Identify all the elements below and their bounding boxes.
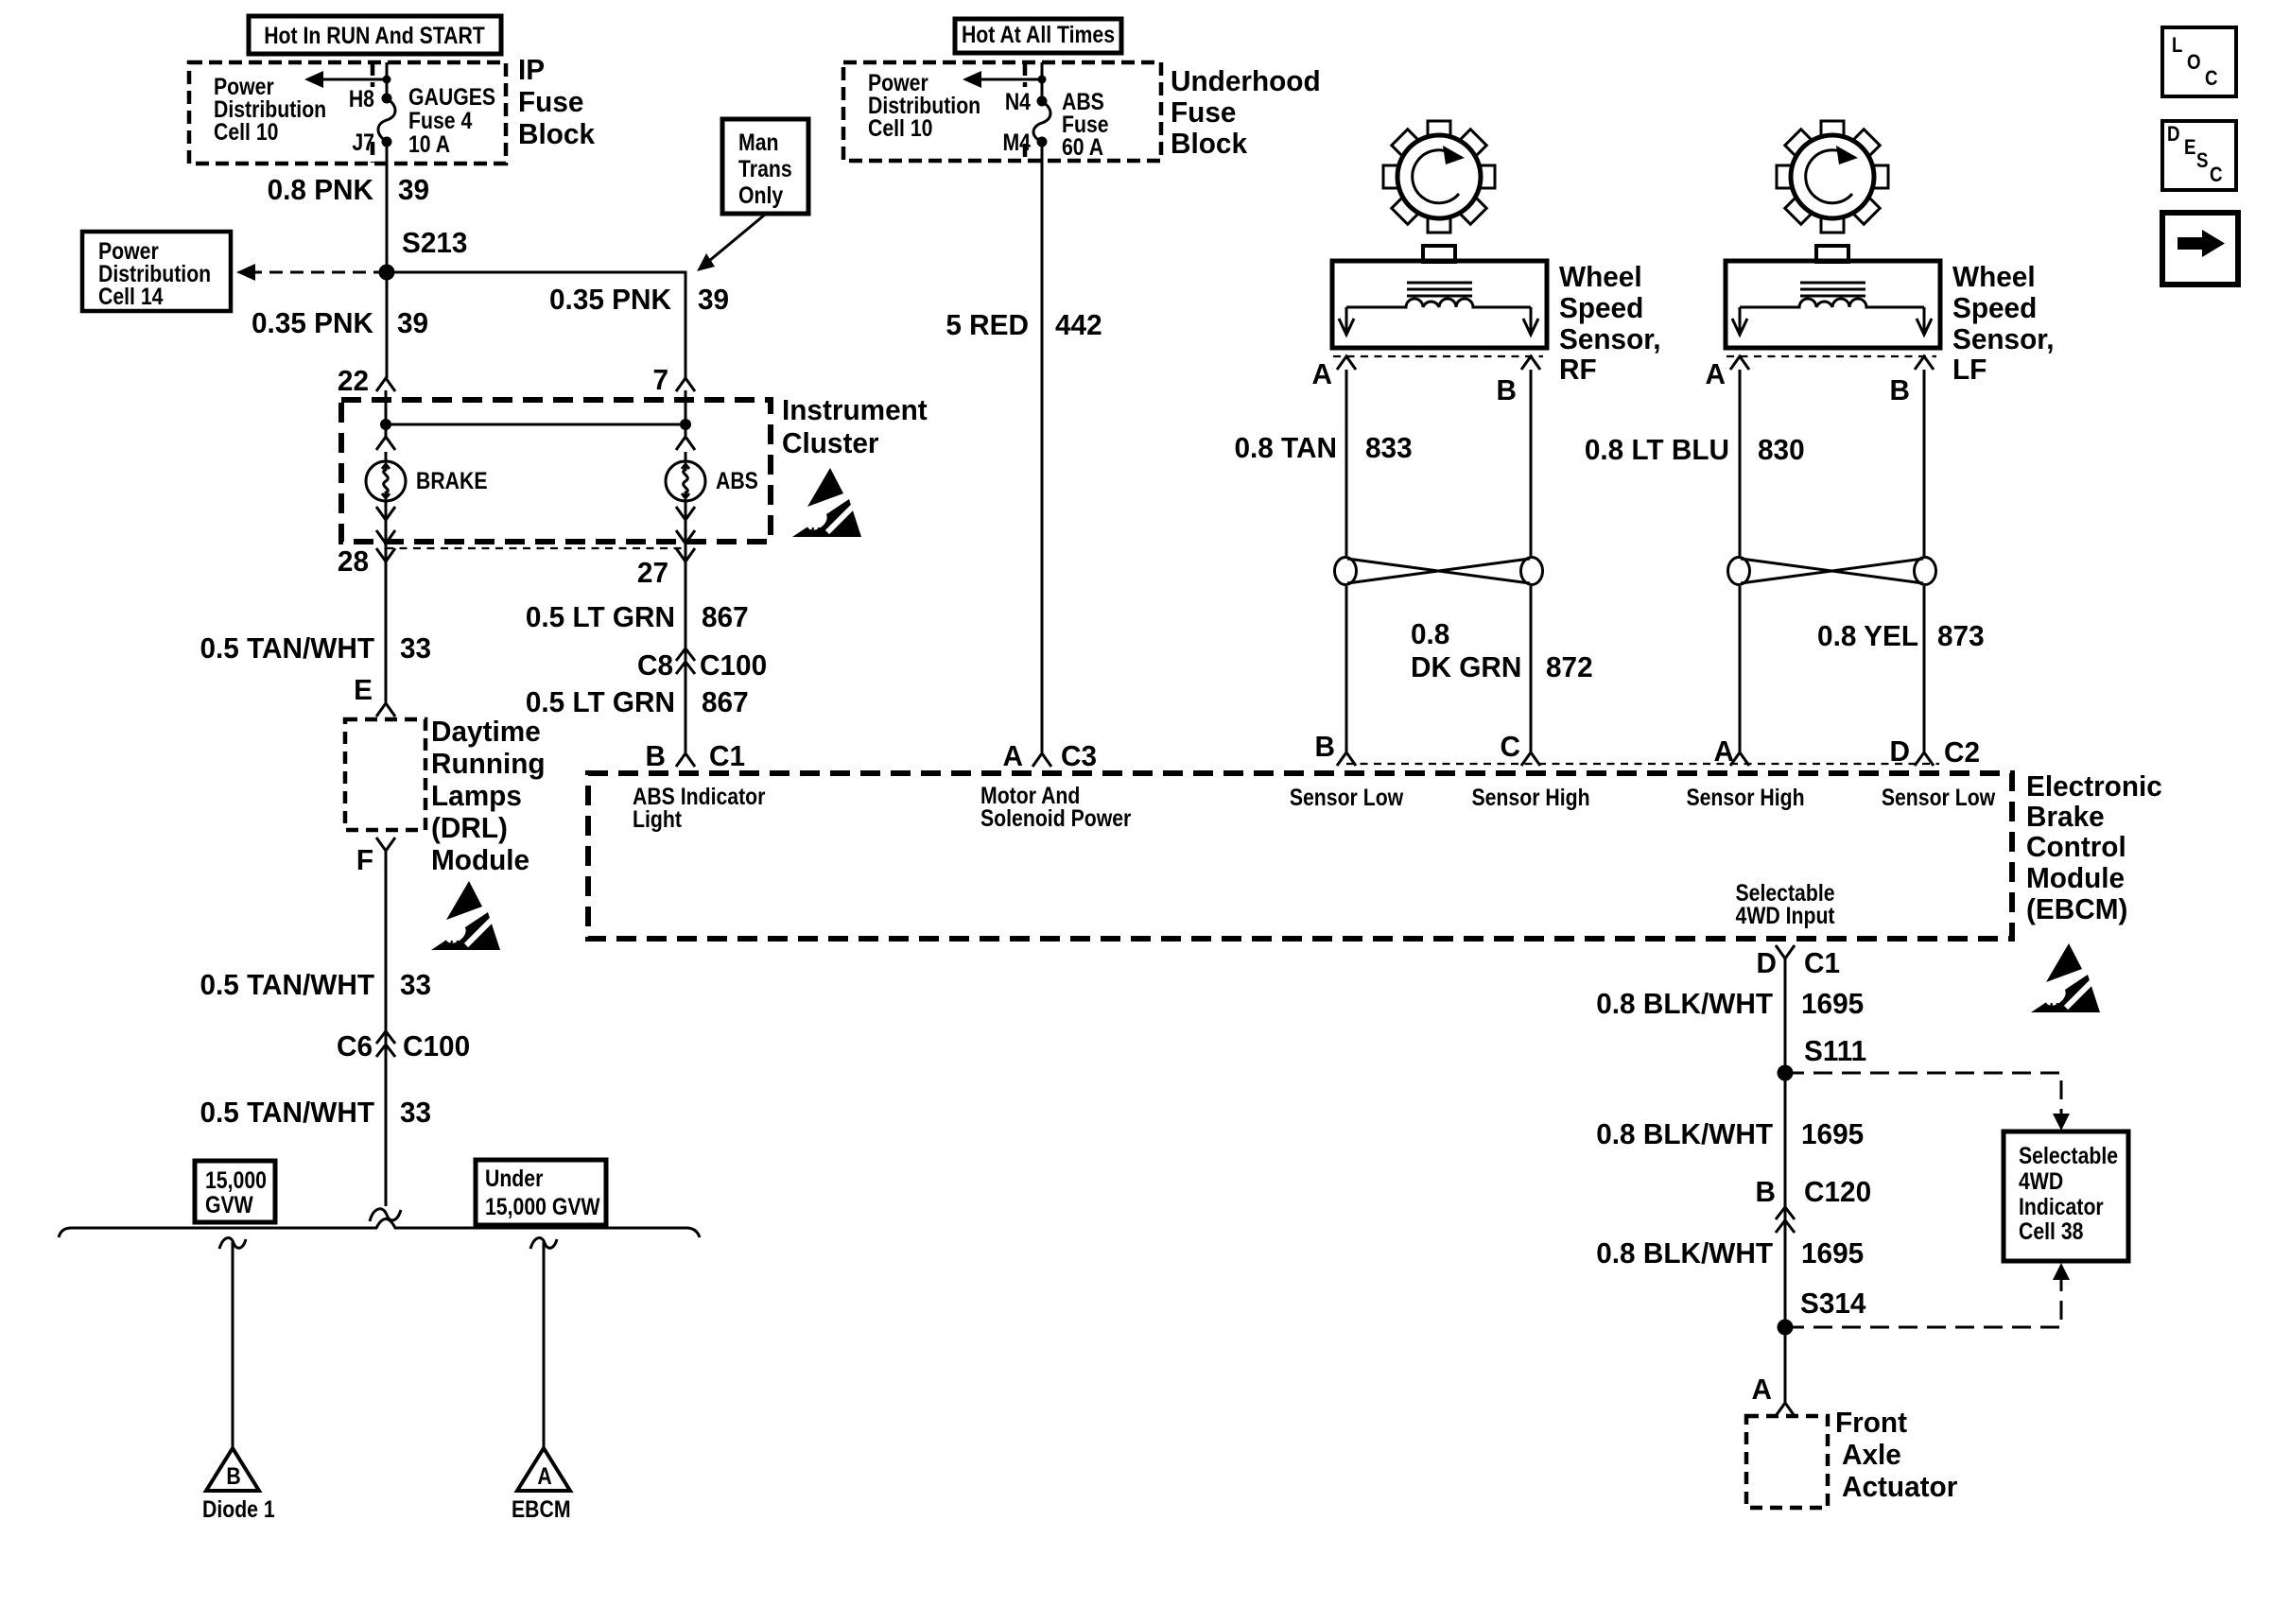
svg-text:Only: Only — [738, 181, 783, 208]
svg-text:Sensor High: Sensor High — [1686, 784, 1804, 810]
label Daytime Running Lamps (DRL) Module — [431, 715, 546, 876]
splice S213 — [379, 226, 468, 280]
wire from hot feed — [1041, 62, 1044, 101]
svg-text:C: C — [2205, 68, 2218, 91]
arrow to power distribution cell 10 (IP) — [304, 71, 391, 88]
svg-text:Under: Under — [485, 1165, 543, 1191]
svg-text:C: C — [1501, 730, 1521, 763]
front axle actuator dashed box — [1746, 1416, 1828, 1508]
svg-text:0.8: 0.8 — [1411, 617, 1449, 650]
BRAKE indicator lamp — [366, 437, 488, 567]
svg-text:A: A — [1003, 739, 1024, 772]
svg-text:Sensor Low: Sensor Low — [1290, 784, 1404, 810]
svg-text:ABS: ABS — [716, 467, 758, 493]
inline connector B C120 — [1756, 1175, 1872, 1233]
svg-text:DK GRN: DK GRN — [1411, 650, 1521, 683]
svg-text:S111: S111 — [1804, 1034, 1866, 1067]
splice squiggle to bus — [370, 1209, 401, 1221]
svg-text:Front: Front — [1835, 1406, 1907, 1439]
wire S213 to pin 7 — [387, 272, 685, 378]
wire sensor RF A down — [1345, 370, 1348, 556]
instrument cluster dashed box — [341, 400, 771, 542]
svg-text:Lamps: Lamps — [431, 779, 522, 812]
wire EBCM to front axle actuator — [1784, 959, 1787, 1403]
svg-text:O: O — [2187, 52, 2201, 75]
svg-text:Wheel: Wheel — [1952, 260, 2036, 293]
wire label 0.8 LT BLU 830 — [1585, 433, 1805, 466]
label Instrument Cluster — [782, 393, 928, 459]
label Underhood Fuse Block — [1171, 64, 1321, 160]
label Front Axle Actuator — [1835, 1406, 1957, 1503]
ABS indicator lamp — [666, 437, 758, 567]
terminal triangle A — [517, 1448, 570, 1491]
header box Hot At All Times — [955, 19, 1121, 53]
arrow reference box — [2162, 213, 2238, 285]
svg-text:S: S — [2196, 150, 2208, 173]
svg-text:0.5 LT GRN: 0.5 LT GRN — [526, 685, 675, 718]
svg-text:Hot At All Times: Hot At All Times — [962, 21, 1115, 47]
wire drop to Diode 1 — [219, 1237, 246, 1448]
wire pin 28 to DRL pin E — [385, 561, 388, 703]
bus brace line — [59, 1219, 700, 1238]
svg-text:Underhood: Underhood — [1171, 64, 1321, 97]
dashed wire S111 to 4WD indicator — [1785, 1073, 2070, 1131]
svg-text:S314: S314 — [1800, 1287, 1866, 1320]
svg-text:M4: M4 — [1002, 129, 1031, 155]
box 15,000 GVW — [195, 1161, 275, 1222]
svg-text:B: B — [1315, 730, 1335, 763]
connector C2 thin dashed line — [1346, 763, 1939, 765]
svg-text:Fuse 4: Fuse 4 — [408, 107, 472, 133]
svg-text:39: 39 — [698, 283, 729, 316]
svg-text:(DRL): (DRL) — [431, 811, 508, 844]
svg-text:4WD Input: 4WD Input — [1736, 902, 1835, 928]
svg-text:Module: Module — [431, 843, 529, 876]
svg-text:F: F — [356, 843, 373, 876]
ESD symbol (DRL) — [431, 881, 500, 950]
arrow to power distribution cell 10 (underhood) — [963, 71, 1047, 88]
svg-text:EBCM: EBCM — [512, 1495, 571, 1522]
svg-text:Speed: Speed — [1952, 291, 2037, 324]
svg-text:Speed: Speed — [1559, 291, 1643, 324]
twisted pair RF — [1335, 558, 1543, 585]
svg-text:B: B — [646, 739, 666, 772]
svg-text:Cell 10: Cell 10 — [868, 114, 932, 141]
dashed wire S314 to 4WD indicator — [1785, 1263, 2070, 1327]
svg-text:0.8 LT BLU: 0.8 LT BLU — [1585, 433, 1729, 466]
svg-text:60 A: 60 A — [1062, 133, 1103, 160]
svg-text:L: L — [2172, 35, 2182, 58]
svg-text:E: E — [2184, 137, 2195, 160]
svg-text:IP: IP — [518, 53, 545, 86]
pin D C2 sensor low LF — [1890, 734, 1981, 769]
label Power Distribution Cell 10 (underhood) — [868, 69, 980, 141]
box Power Distribution Cell 14 — [82, 232, 231, 311]
wires below twist RF — [1346, 586, 1531, 752]
svg-text:B: B — [1756, 1175, 1776, 1208]
svg-text:(EBCM): (EBCM) — [2026, 892, 2127, 925]
label Electronic Brake Control Module (EBCM) — [2026, 769, 2162, 925]
svg-text:RF: RF — [1559, 353, 1597, 386]
svg-text:LF: LF — [1952, 353, 1987, 386]
svg-text:B: B — [1497, 373, 1517, 406]
svg-text:830: 830 — [1758, 433, 1805, 466]
IP fuse block dashed box — [189, 62, 506, 164]
svg-text:A: A — [537, 1462, 552, 1489]
svg-text:E: E — [354, 673, 373, 706]
pin B C1 ABS indicator light — [646, 739, 746, 772]
pin A front axle actuator — [1752, 1373, 1795, 1416]
box Under 15,000 GVW — [476, 1160, 606, 1225]
pin B sensor LF — [1890, 356, 1934, 406]
wire J7 to S213 to pin 22 — [386, 142, 389, 378]
svg-text:0.35 PNK: 0.35 PNK — [549, 283, 671, 316]
ESD symbol (EBCM) — [2031, 943, 2100, 1012]
underhood fuse block dashed box — [843, 62, 1161, 161]
svg-text:Sensor,: Sensor, — [1952, 322, 2054, 355]
svg-text:D: D — [1757, 946, 1777, 979]
svg-text:10 A: 10 A — [408, 130, 450, 157]
wire label 0.8 TAN 833 — [1234, 431, 1412, 464]
box Selectable 4WD Indicator Cell 38 — [2004, 1132, 2128, 1261]
svg-text:Sensor,: Sensor, — [1559, 322, 1660, 355]
wire M4 to EBCM pin A C3 — [1041, 142, 1044, 752]
wire pin 22 into cluster — [385, 390, 388, 437]
svg-text:Cell 14: Cell 14 — [98, 283, 164, 309]
label Selectable 4WD Input — [1735, 879, 1834, 928]
svg-text:0.5 TAN/WHT: 0.5 TAN/WHT — [200, 1096, 374, 1129]
svg-text:39: 39 — [397, 306, 428, 339]
wire label 0.5 TAN/WHT 33 — [200, 968, 431, 1001]
svg-text:Sensor Low: Sensor Low — [1882, 784, 1996, 810]
svg-text:N4: N4 — [1005, 88, 1031, 114]
pin B sensor RF — [1497, 356, 1540, 406]
wire pin 27 to EBCM pin B C1 — [685, 561, 687, 752]
svg-text:442: 442 — [1055, 308, 1102, 341]
svg-text:833: 833 — [1365, 431, 1413, 464]
IP fuse block divider — [371, 62, 375, 163]
wheel speed sensor LF — [1726, 246, 1940, 348]
wire label 0.8 PNK 39 — [268, 173, 430, 206]
svg-text:C: C — [2210, 164, 2223, 187]
label IP Fuse Block — [518, 53, 595, 150]
DRL module dashed box — [345, 719, 425, 830]
svg-text:Brake: Brake — [2026, 800, 2105, 833]
header box Hot In RUN And START — [249, 16, 501, 54]
svg-text:Module: Module — [2026, 861, 2125, 894]
svg-text:0.35 PNK: 0.35 PNK — [252, 306, 373, 339]
svg-text:C100: C100 — [700, 648, 767, 682]
svg-text:33: 33 — [400, 1096, 431, 1129]
svg-text:15,000: 15,000 — [205, 1166, 267, 1193]
svg-text:C6: C6 — [337, 1029, 373, 1063]
svg-text:28: 28 — [338, 544, 369, 578]
svg-text:H8: H8 — [349, 85, 374, 112]
svg-text:867: 867 — [702, 685, 749, 718]
svg-text:Daytime: Daytime — [431, 715, 541, 748]
svg-text:15,000 GVW: 15,000 GVW — [485, 1193, 600, 1219]
svg-text:Block: Block — [518, 117, 595, 150]
wire label 0.8 BLK/WHT 1695 — [1596, 1117, 1864, 1150]
svg-text:0.8 PNK: 0.8 PNK — [268, 173, 373, 206]
box Man Trans Only — [722, 119, 808, 214]
svg-text:0.8 BLK/WHT: 0.8 BLK/WHT — [1596, 1236, 1773, 1270]
svg-text:B: B — [1890, 373, 1910, 406]
wire label 0.35 PNK 39 (right) — [549, 283, 729, 316]
svg-text:C120: C120 — [1804, 1175, 1871, 1208]
svg-text:4WD: 4WD — [2019, 1167, 2063, 1194]
svg-text:J7: J7 — [352, 129, 374, 155]
terminal triangle B — [206, 1448, 259, 1491]
svg-text:Trans: Trans — [738, 155, 792, 181]
label Power Distribution Cell 10 (IP) — [214, 73, 326, 145]
svg-text:Wheel: Wheel — [1559, 260, 1642, 293]
wire sensor LF A down — [1739, 370, 1742, 556]
pin A sensor RF — [1312, 356, 1356, 390]
wire label 0.8 BLK/WHT 1695 — [1596, 1236, 1864, 1270]
svg-text:0.8 BLK/WHT: 0.8 BLK/WHT — [1596, 1117, 1773, 1150]
pin F — [356, 838, 395, 876]
svg-text:1695: 1695 — [1801, 1117, 1864, 1150]
label Wheel Speed Sensor RF — [1559, 260, 1660, 386]
svg-text:C100: C100 — [403, 1029, 470, 1063]
svg-text:C8: C8 — [637, 648, 673, 682]
svg-text:Fuse: Fuse — [518, 85, 583, 118]
svg-text:Control: Control — [2026, 830, 2126, 863]
svg-text:7: 7 — [652, 363, 668, 396]
wire sensor LF B down — [1923, 370, 1926, 556]
svg-text:A: A — [1312, 357, 1333, 390]
svg-text:0.5 TAN/WHT: 0.5 TAN/WHT — [200, 631, 374, 665]
wire pin F down to bus — [385, 851, 388, 1206]
svg-text:Electronic: Electronic — [2026, 769, 2162, 803]
svg-text:872: 872 — [1546, 650, 1593, 683]
pin A sensor LF — [1706, 356, 1749, 390]
sensor RF connector line — [1333, 355, 1543, 357]
wire sensor RF B down — [1530, 370, 1533, 556]
svg-text:Instrument: Instrument — [782, 393, 928, 426]
svg-text:0.5 LT GRN: 0.5 LT GRN — [526, 600, 675, 633]
svg-text:Hot In RUN And START: Hot In RUN And START — [264, 22, 485, 48]
pin E — [354, 673, 395, 717]
svg-text:S213: S213 — [402, 226, 467, 259]
svg-text:Actuator: Actuator — [1842, 1470, 1957, 1503]
wire label 0.8 BLK/WHT 1695 — [1596, 987, 1864, 1020]
svg-text:Light: Light — [633, 805, 682, 832]
svg-text:Axle: Axle — [1842, 1438, 1901, 1471]
svg-text:Selectable: Selectable — [2019, 1142, 2118, 1168]
ESD symbol (instrument cluster) — [792, 468, 861, 537]
pin B sensor low RF — [1315, 730, 1356, 766]
wire label 0.5 TAN/WHT 33 — [200, 1096, 431, 1129]
label Wheel Speed Sensor LF — [1952, 260, 2054, 386]
DESC reference box — [2162, 121, 2236, 190]
LOC reference box — [2162, 27, 2236, 96]
svg-text:867: 867 — [702, 600, 749, 633]
wheel speed sensor RF tone ring — [1383, 121, 1495, 233]
svg-text:Solenoid Power: Solenoid Power — [980, 804, 1131, 831]
svg-text:A: A — [1706, 357, 1726, 390]
splice S111 — [1778, 1034, 1867, 1080]
arrow from Man Trans Only — [697, 215, 765, 271]
svg-text:27: 27 — [637, 556, 668, 589]
svg-text:Indicator: Indicator — [2019, 1193, 2104, 1219]
underhood fuse block divider — [1023, 62, 1028, 161]
svg-text:GVW: GVW — [205, 1191, 253, 1218]
inline connector C8 C100 — [637, 648, 767, 682]
twisted pair LF — [1728, 558, 1936, 585]
wire label 0.8 DK GRN 872 — [1411, 617, 1593, 683]
wire drop to EBCM terminal — [530, 1237, 557, 1448]
pin 28 — [338, 544, 395, 578]
svg-text:1695: 1695 — [1801, 987, 1864, 1020]
svg-text:Fuse: Fuse — [1171, 95, 1236, 129]
wire label 5 RED 442 — [946, 308, 1102, 341]
svg-text:C2: C2 — [1944, 735, 1980, 769]
wire label 0.35 PNK 39 (left) — [252, 306, 428, 339]
wire from hot feed — [386, 62, 389, 98]
splice S314 — [1778, 1287, 1866, 1335]
wire label 0.5 LT GRN 867 — [526, 600, 749, 633]
fuse ABS 60A — [1002, 88, 1108, 160]
wheel speed sensor RF — [1332, 246, 1547, 348]
svg-text:C1: C1 — [1804, 946, 1840, 979]
svg-text:D: D — [2167, 124, 2180, 147]
svg-text:0.5 TAN/WHT: 0.5 TAN/WHT — [200, 968, 374, 1001]
inline connector C6 C100 — [337, 1029, 470, 1063]
svg-text:Block: Block — [1171, 127, 1247, 160]
svg-text:D: D — [1890, 734, 1910, 768]
pin A C3 motor and solenoid power — [1003, 739, 1098, 772]
EBCM dashed box — [588, 773, 2012, 939]
pin C sensor high RF — [1501, 730, 1540, 766]
sensor LF connector line — [1726, 355, 1936, 357]
svg-text:0.8 YEL: 0.8 YEL — [1817, 619, 1918, 652]
svg-text:0.8 TAN: 0.8 TAN — [1234, 431, 1337, 464]
svg-text:5 RED: 5 RED — [946, 308, 1029, 341]
wire label 0.8 YEL 873 — [1817, 619, 1985, 652]
svg-text:33: 33 — [400, 631, 431, 665]
svg-text:BRAKE: BRAKE — [416, 467, 488, 493]
svg-text:B: B — [226, 1462, 240, 1489]
pin 7 — [652, 363, 695, 396]
pin description Motor And Solenoid Power — [980, 782, 1131, 831]
wire label 0.5 TAN/WHT 33 — [200, 631, 431, 665]
svg-text:Cluster: Cluster — [782, 426, 879, 459]
wire label 0.5 LT GRN 867 — [526, 685, 749, 718]
svg-text:Man: Man — [738, 129, 778, 155]
svg-text:A: A — [1752, 1373, 1773, 1406]
pin 27 — [637, 548, 695, 589]
svg-text:Running: Running — [431, 747, 546, 780]
svg-text:C3: C3 — [1061, 739, 1097, 772]
cluster connector thin dashed line — [386, 547, 685, 549]
svg-text:39: 39 — [398, 173, 429, 206]
wheel speed sensor LF tone ring — [1777, 121, 1888, 233]
svg-text:Diode 1: Diode 1 — [202, 1495, 275, 1522]
dashed wire to Power Distribution Cell 14 — [236, 264, 387, 281]
wire pin 7 into cluster — [685, 390, 687, 437]
wires below twist LF — [1740, 586, 1924, 752]
fuse F4 GAUGES 10A — [349, 83, 495, 157]
svg-text:1695: 1695 — [1801, 1236, 1864, 1270]
svg-text:GAUGES: GAUGES — [408, 83, 495, 110]
svg-text:22: 22 — [338, 364, 369, 397]
bulb feed wire — [380, 419, 691, 430]
svg-text:Cell 38: Cell 38 — [2019, 1218, 2084, 1244]
svg-text:Sensor High: Sensor High — [1471, 784, 1589, 810]
pin A sensor high LF — [1714, 734, 1749, 768]
svg-text:0.8 BLK/WHT: 0.8 BLK/WHT — [1596, 987, 1773, 1020]
svg-text:C1: C1 — [709, 739, 745, 772]
svg-text:Cell 10: Cell 10 — [214, 118, 278, 145]
svg-text:873: 873 — [1937, 619, 1985, 652]
svg-text:33: 33 — [400, 968, 431, 1001]
pin 22 — [338, 364, 395, 397]
pin D C1 selectable 4WD input — [1757, 945, 1841, 979]
pin description ABS Indicator Light — [633, 783, 765, 832]
